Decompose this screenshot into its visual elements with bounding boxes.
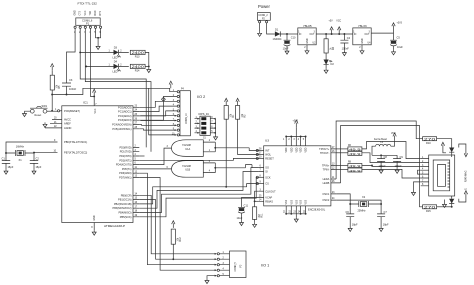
svg-text:VDD: VDD xyxy=(291,147,293,152)
capacitor C3 100nF xyxy=(62,82,71,95)
wire OSC1 to crystal/C6 xyxy=(337,194,359,214)
wire bead left to center tap net xyxy=(372,146,376,155)
svg-text:RXD: RXD xyxy=(95,10,97,15)
svg-text:100nF: 100nF xyxy=(342,47,350,51)
wire P4 pin7 xyxy=(141,120,177,122)
resistor R6 49.9 TPOUT+ xyxy=(335,148,348,150)
svg-text:18pF: 18pF xyxy=(8,165,14,169)
svg-text:PB5(SCK): PB5(SCK) xyxy=(120,215,132,219)
svg-text:74LS08: 74LS08 xyxy=(182,143,191,147)
wire R12 to P3 line xyxy=(172,244,174,259)
node R4 tap xyxy=(325,33,327,35)
svg-text:LED: LED xyxy=(113,56,118,60)
wire SW1 right to MCU reset pin xyxy=(47,110,58,112)
svg-text:PB6(XTAL1/TOSC1): PB6(XTAL1/TOSC1) xyxy=(64,140,87,144)
svg-text:270: 270 xyxy=(424,137,436,141)
svg-text:Ferrite Bead: Ferrite Bead xyxy=(374,138,387,141)
wire P1 pin3 TXD down and around xyxy=(85,28,151,151)
svg-text:+3V3: +3V3 xyxy=(397,23,403,25)
MCU right pin labels PB0-PB5 xyxy=(113,193,132,219)
MCU VCC top pin label xyxy=(95,104,98,114)
connector P4 CONN_10 I/O 2 xyxy=(180,91,190,136)
ground C4 xyxy=(342,51,346,56)
svg-text:PB1(OC1A): PB1(OC1A) xyxy=(118,198,132,202)
svg-text:PD6(AIN0): PD6(AIN0) xyxy=(119,171,131,175)
svg-text:VSS: VSS xyxy=(291,199,293,204)
P4 pin circles xyxy=(177,91,179,93)
svg-text:CS: CS xyxy=(265,182,269,186)
diode RJ45 green LED xyxy=(449,148,454,153)
wire R13/R14 to ground xyxy=(145,52,149,67)
wire PB3 to U3 SI (staircase) xyxy=(139,172,258,209)
svg-text:TXD: TXD xyxy=(90,11,92,16)
wire bead right to VCC xyxy=(391,140,395,146)
svg-text:C10: C10 xyxy=(291,36,296,40)
wire PD7 to P3 pin4 xyxy=(139,178,216,271)
svg-text:CLKOUT: CLKOUT xyxy=(265,189,276,193)
capacitor C4 100nF xyxy=(343,33,345,35)
svg-text:VDD: VDD xyxy=(296,147,298,152)
svg-text:PD2(INT0): PD2(INT0) xyxy=(119,154,131,158)
wire CLKOUT to R11 xyxy=(255,191,259,207)
VCC +3V3 flag xyxy=(392,23,395,30)
resistor R13 270 bottom xyxy=(423,205,437,209)
svg-text:100nF: 100nF xyxy=(69,87,77,91)
svg-text:SI: SI xyxy=(265,170,268,174)
wire PD6 to P3 pin3 xyxy=(139,173,216,265)
node diamond crossing xyxy=(162,97,166,101)
connector P1 CONN_6 box xyxy=(76,18,100,25)
ground C9 xyxy=(395,168,399,173)
node C10 tap xyxy=(286,33,288,35)
svg-text:VCC: VCC xyxy=(391,133,396,135)
node pin5 tie xyxy=(97,37,99,39)
svg-text:GND: GND xyxy=(307,38,309,43)
svg-text:OSC2: OSC2 xyxy=(322,198,330,202)
svg-text:2400: 2400 xyxy=(132,65,144,69)
wire OSC2 to crystal/C7 xyxy=(337,200,381,214)
resistor R10 270 LED feed xyxy=(423,137,437,141)
svg-text:VDD: VDD xyxy=(301,147,303,152)
wire P1 pin2 RXD down and around xyxy=(80,28,146,147)
svg-text:IN: IN xyxy=(354,34,357,36)
connector J1 RJ45-MAG jack xyxy=(429,155,455,196)
wire P4 pin4 to PC1 xyxy=(139,106,177,112)
ground C8 xyxy=(379,168,383,173)
wire PB6 XTAL1 xyxy=(6,142,58,161)
svg-text:VSS: VSS xyxy=(301,199,303,204)
capacitor C1 18pF xyxy=(2,161,10,170)
op-amp gate U1A 74LS08 xyxy=(172,140,204,157)
wire P4 pin2 via diamond to PC3 xyxy=(139,97,177,121)
capacitor C2 18pF xyxy=(30,161,38,170)
VCC flag above R5 xyxy=(51,64,54,71)
capacitor C11 10uF electrolytic xyxy=(238,206,245,208)
svg-text:TPIN-: TPIN- xyxy=(323,168,330,172)
capacitor C5 10uF electrolytic xyxy=(390,30,397,40)
svg-text:49.9: 49.9 xyxy=(349,169,361,173)
node VCC junction xyxy=(93,95,95,97)
svg-text:PC0(ADC0): PC0(ADC0) xyxy=(118,105,132,109)
wire P1 pin1 to C3 xyxy=(67,28,76,82)
resistor R2 10k xyxy=(236,106,240,120)
svg-text:C9: C9 xyxy=(400,155,404,159)
svg-text:VDD: VDD xyxy=(306,147,308,152)
svg-text:2400: 2400 xyxy=(132,51,144,55)
wire P4 pin6 xyxy=(141,115,177,117)
svg-text:100nF: 100nF xyxy=(379,164,387,168)
svg-text:SW1: SW1 xyxy=(42,104,48,108)
capacitor C6 18pF xyxy=(346,214,354,227)
svg-text:10uF: 10uF xyxy=(237,216,243,220)
svg-text:+5V: +5V xyxy=(329,21,334,23)
svg-text:PC2(ADC2): PC2(ADC2) xyxy=(118,114,132,118)
svg-text:VDD: VDD xyxy=(286,147,288,152)
svg-text:C3: C3 xyxy=(69,78,73,82)
wire P4 pin5 to PC2 xyxy=(139,111,177,116)
diode D3 LED xyxy=(114,50,119,55)
svg-text:U3: U3 xyxy=(265,138,269,142)
svg-text:PC4(ADC4/SDA): PC4(ADC4/SDA) xyxy=(112,123,132,127)
resistor R12 10k xyxy=(171,229,175,244)
node D3 tap on RXD wire xyxy=(79,51,81,53)
diode D2 LED to ground xyxy=(325,53,327,60)
svg-text:SO: SO xyxy=(265,166,269,170)
svg-text:D1: D1 xyxy=(275,27,279,31)
svg-text:LEDB: LEDB xyxy=(323,181,330,185)
J1 left pins xyxy=(421,159,429,186)
wire R13b to bottom LED xyxy=(437,206,452,208)
svg-text:LED: LED xyxy=(113,70,118,74)
svg-text:18pF: 18pF xyxy=(383,223,389,227)
svg-text:VCAP: VCAP xyxy=(265,196,272,200)
wire U1A inputs tied xyxy=(203,142,249,152)
svg-text:PB7(XTAL2/TOSC2): PB7(XTAL2/TOSC2) xyxy=(64,150,87,154)
wire U1B inputs tied xyxy=(203,163,245,173)
svg-text:SCK: SCK xyxy=(265,175,271,179)
resistor R11 2k7 xyxy=(253,207,257,220)
MCU right pin stubs xyxy=(133,107,139,129)
node R5/C3 reset xyxy=(51,94,53,96)
wire LED cathode into jack xyxy=(459,144,466,150)
svg-text:PD5(T1): PD5(T1) xyxy=(122,167,132,171)
wire 78L05 out rail xyxy=(316,33,353,35)
svg-text:CONN_5: CONN_5 xyxy=(235,261,237,271)
regulator 78L33 U4 xyxy=(353,28,371,45)
resistor R13 270 xyxy=(130,50,145,54)
capacitor C8 100nF xyxy=(372,155,385,168)
node D4 tap on TXD wire xyxy=(85,65,87,67)
wire J1 pin4/5 plug tie xyxy=(418,170,421,174)
svg-text:OUT: OUT xyxy=(365,34,370,36)
svg-text:78L33: 78L33 xyxy=(358,24,367,28)
MCU GND pin to ground xyxy=(91,215,96,229)
svg-text:D3: D3 xyxy=(114,45,118,49)
wire 78L33 GND to ground xyxy=(361,45,363,49)
svg-text:74LS08: 74LS08 xyxy=(182,164,191,168)
svg-text:PB3(MOSI/OC2): PB3(MOSI/OC2) xyxy=(113,206,132,210)
svg-text:R14: R14 xyxy=(135,68,140,72)
svg-text:AREF: AREF xyxy=(64,122,71,126)
svg-text:CONN_2: CONN_2 xyxy=(258,15,268,17)
resistor R5 10k pull-up xyxy=(50,75,54,90)
connector P2 CONN_2 xyxy=(257,13,270,21)
svg-text:Power: Power xyxy=(258,4,270,9)
MCU left pin labels xyxy=(64,109,87,154)
svg-text:PB2(SS/OC1B): PB2(SS/OC1B) xyxy=(114,202,132,206)
wire P4 pin3 to PC0 xyxy=(139,101,177,107)
VCC flag at bead xyxy=(393,133,396,140)
svg-text:TPOUT-: TPOUT- xyxy=(320,151,329,155)
svg-text:C4: C4 xyxy=(347,36,351,40)
svg-text:CTS: CTS xyxy=(80,10,82,15)
wire U1B tie to SO row xyxy=(251,165,253,168)
node crystal right xyxy=(33,152,35,154)
svg-text:FTDI TTL-232: FTDI TTL-232 xyxy=(78,2,98,6)
svg-text:C1: C1 xyxy=(2,157,6,161)
wire PB0 to P3 pin1 xyxy=(139,195,216,254)
P1 pin name labels (rotated) xyxy=(75,10,103,15)
svg-text:PC5(ADC5/SCL): PC5(ADC5/SCL) xyxy=(112,127,131,131)
wire LEDA up and over to RJ45 xyxy=(336,121,423,179)
wire D1 to 78L05 xyxy=(287,33,298,35)
wire P4 pin9 to PC5 xyxy=(139,129,176,130)
ground C2 xyxy=(32,169,36,174)
ground P3 xyxy=(205,279,209,284)
wire PB2 to U3 CS (staircase) xyxy=(139,184,258,204)
svg-text:C11: C11 xyxy=(244,203,249,207)
svg-text:18pF: 18pF xyxy=(352,223,358,227)
svg-text:I/O 1: I/O 1 xyxy=(261,264,269,268)
wire reset net to VCC rail jog xyxy=(52,88,177,94)
svg-text:LEDA: LEDA xyxy=(323,177,330,181)
ground J1 termination xyxy=(412,191,416,196)
svg-text:PD1(TXD): PD1(TXD) xyxy=(120,150,132,154)
pin MCU /RESET xyxy=(58,110,60,112)
wire PB7 XTAL2 xyxy=(25,152,58,160)
svg-text:49.9: 49.9 xyxy=(349,164,361,168)
ground SW1 xyxy=(23,112,27,117)
wire R5 top to VCC xyxy=(51,71,53,75)
VCC +5V flags on rail xyxy=(330,27,333,34)
svg-text:ENC28J60-DIL: ENC28J60-DIL xyxy=(308,208,326,212)
svg-text:+3V3: +3V3 xyxy=(293,121,299,123)
svg-text:ATMEGA168-P: ATMEGA168-P xyxy=(104,224,125,228)
svg-text:TPOUT+: TPOUT+ xyxy=(319,147,330,151)
resistor R9 49.9 TPIN- xyxy=(335,168,348,170)
op-amp gate U1B 74LS08 xyxy=(172,161,204,178)
svg-text:AGND: AGND xyxy=(64,126,72,130)
svg-text:R13: R13 xyxy=(135,54,140,58)
U3 bottom supply pins xyxy=(286,206,305,217)
wire J1 pin7 termination xyxy=(414,182,421,191)
resistor R7 49.9 TPOUT- xyxy=(335,152,348,154)
svg-text:PD3(INT1): PD3(INT1) xyxy=(119,158,131,162)
ground C6 xyxy=(348,227,352,232)
wire LEDB up and over to RJ45 xyxy=(341,126,423,207)
ground C5 xyxy=(392,50,396,55)
op U3 ENC28J60-DIL box xyxy=(264,146,331,206)
diode D4 LED xyxy=(114,64,119,69)
wire AREF/AGND to ground xyxy=(45,120,62,128)
wire bottom LED to VCC arrow right xyxy=(459,198,466,202)
svg-text:PC6(/RESET): PC6(/RESET) xyxy=(64,109,80,113)
wire U1B output to PD5 xyxy=(139,168,171,170)
svg-text:TPIN+: TPIN+ xyxy=(322,164,330,168)
svg-text:25MHz: 25MHz xyxy=(358,209,367,213)
wire 78L33 out to C5 xyxy=(371,32,393,34)
ground AGND xyxy=(43,122,47,127)
svg-text:DIPS_04: DIPS_04 xyxy=(199,112,210,116)
svg-text:D4: D4 xyxy=(114,59,118,63)
wire VCAP to C11 xyxy=(242,198,259,208)
node LED resistor tie xyxy=(148,65,150,67)
VCC flag U3 supply xyxy=(295,120,298,127)
svg-text:PC1(ADC1): PC1(ADC1) xyxy=(118,110,132,114)
svg-text:10uF: 10uF xyxy=(397,45,403,49)
wire P4 pin8 to PC4 xyxy=(139,124,176,127)
connector P3 CONN_5 I/O 1 xyxy=(230,251,247,278)
wire R5 bottom to reset node xyxy=(51,90,53,111)
svg-text:RESET: RESET xyxy=(265,157,274,161)
ground C10 xyxy=(285,49,289,54)
wire U1A output to PD4 xyxy=(139,148,171,165)
svg-text:10uF: 10uF xyxy=(283,46,289,50)
wire PB1 to P3 pin2 xyxy=(139,200,216,260)
svg-text:Reset: Reset xyxy=(35,113,42,117)
resistor R14 270 xyxy=(130,64,145,68)
svg-text:R15: R15 xyxy=(426,209,431,213)
wire U1A net to U3 INT xyxy=(249,148,258,151)
VCC flag at MCU supply xyxy=(93,89,96,96)
svg-text:VSS: VSS xyxy=(286,199,288,204)
resistor R1 10k xyxy=(224,106,228,120)
svg-text:PD4(XCK/T0): PD4(XCK/T0) xyxy=(116,163,132,167)
svg-text:INT: INT xyxy=(265,149,270,153)
capacitor C10 10uF electrolytic xyxy=(284,34,291,40)
MCU right pin labels PC0-PC5 xyxy=(112,105,132,131)
svg-text:VCC: VCC xyxy=(336,21,341,23)
ground RJ45 bottom xyxy=(444,200,446,203)
VCC flag RJ45 top xyxy=(443,150,446,153)
P1 pin numbers xyxy=(74,32,102,34)
P3 pin circles xyxy=(217,253,219,255)
svg-text:D2: D2 xyxy=(331,62,335,66)
node crystal left xyxy=(5,152,7,154)
resistor R4 1k xyxy=(325,34,327,39)
svg-text:18pF: 18pF xyxy=(36,165,42,169)
ground U3 xyxy=(294,217,298,222)
P1 pin circles xyxy=(74,26,76,28)
wire 78L05 GND to ground xyxy=(306,45,308,49)
wire P2 pin2 to D1 xyxy=(267,23,275,34)
svg-text:GND: GND xyxy=(94,215,96,220)
ground P1 xyxy=(96,45,100,50)
svg-text:I/O 2: I/O 2 xyxy=(197,95,205,99)
ground C7 xyxy=(379,227,383,232)
wire R2 down to WOL xyxy=(238,119,259,154)
wire PB5 to U3 SCK (staircase) xyxy=(139,177,258,217)
svg-text:R12: R12 xyxy=(180,237,182,242)
ground C11 xyxy=(240,221,244,226)
svg-text:C5: C5 xyxy=(397,35,401,39)
U3 right pin stubs xyxy=(331,149,341,200)
svg-text:OSC1: OSC1 xyxy=(322,192,330,196)
svg-text:PD0(RXD): PD0(RXD) xyxy=(119,145,131,149)
svg-text:PC3(ADC3): PC3(ADC3) xyxy=(118,118,132,122)
svg-text:78L05: 78L05 xyxy=(303,24,312,28)
svg-text:PB4(MISO): PB4(MISO) xyxy=(118,211,131,215)
wire PD2 stub xyxy=(139,155,144,157)
ground P2 xyxy=(258,31,262,36)
wire R1 down to CS line xyxy=(225,119,227,187)
svg-text:270: 270 xyxy=(424,205,436,209)
U3 left pin labels xyxy=(265,149,276,204)
svg-text:PB0(ICP): PB0(ICP) xyxy=(121,193,132,197)
svg-text:RTS: RTS xyxy=(100,10,102,15)
U3 top supply pins xyxy=(286,127,305,146)
svg-text:GND: GND xyxy=(362,38,364,43)
svg-text:R10: R10 xyxy=(426,141,431,145)
VCC flag above R2 xyxy=(236,98,239,105)
ground R11 xyxy=(253,222,257,227)
svg-text:C7: C7 xyxy=(384,210,388,214)
svg-text:GND: GND xyxy=(75,10,77,15)
svg-text:WOL: WOL xyxy=(265,153,271,157)
capacitor C9 100nF xyxy=(381,155,401,168)
svg-text:CONN_10: CONN_10 xyxy=(186,113,188,124)
svg-text:49.9: 49.9 xyxy=(349,152,361,156)
wire DIP inputs xyxy=(195,119,199,133)
MCU right pin labels PD0-PD7 xyxy=(116,145,132,179)
diode RJ45 yellow LED xyxy=(449,199,454,204)
regulator 78L05 U2 xyxy=(298,28,316,45)
wire DIP outputs tie to ground xyxy=(210,119,215,135)
svg-text:OUT: OUT xyxy=(310,34,315,36)
wire P1 pin5+pin6 to ground xyxy=(96,28,101,44)
diode D1 1N4004 xyxy=(275,31,280,36)
op IC1 ATMEGA168-P box xyxy=(62,106,133,223)
wire R8/R9 to RJ45 pin3/pin6 xyxy=(362,165,421,168)
switch SW1 Reset xyxy=(30,109,34,113)
node reset junction xyxy=(51,110,53,112)
svg-text:RBIAS: RBIAS xyxy=(265,199,273,203)
wire R10 to RJ45 LED anode xyxy=(437,139,452,148)
resistor R8 49.9 TPIN+ xyxy=(335,165,348,167)
svg-text:VCC: VCC xyxy=(95,108,97,113)
ground DIP xyxy=(214,135,218,140)
svg-text:AVCC: AVCC xyxy=(64,118,71,122)
svg-text:100nF: 100nF xyxy=(395,164,403,168)
svg-text:VSS: VSS xyxy=(306,199,308,204)
VCC flag above R1 xyxy=(225,98,228,105)
wire SW1 left to ground xyxy=(25,110,31,112)
ground LED resistors xyxy=(147,68,151,73)
svg-text:U1A: U1A xyxy=(185,147,190,151)
wire RBIAS jog xyxy=(255,200,259,202)
wire P4 pin10 xyxy=(149,88,176,135)
svg-text:IC1: IC1 xyxy=(83,101,88,105)
svg-text:1N4004: 1N4004 xyxy=(273,37,283,41)
svg-text:49.9: 49.9 xyxy=(349,147,361,151)
ground C1 xyxy=(4,169,8,174)
svg-text:U1B: U1B xyxy=(185,168,190,172)
wire P2 pin1 to ground xyxy=(259,23,261,32)
svg-text:VSS: VSS xyxy=(296,199,298,204)
svg-text:C6: C6 xyxy=(346,210,350,214)
crystal X1 16MHz xyxy=(17,151,23,156)
capacitor C7 18pF xyxy=(377,214,385,227)
